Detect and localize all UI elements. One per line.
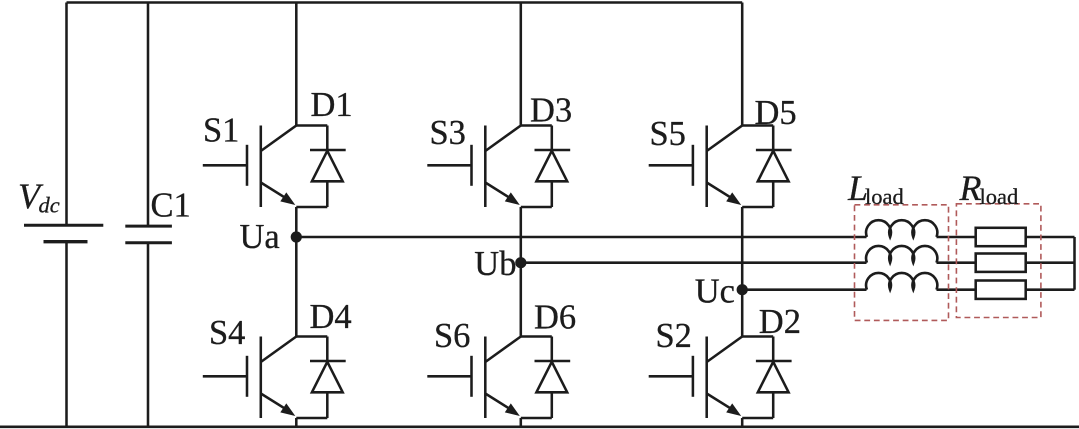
wire: phase a leg, top bus to upper cell <box>295 3 298 126</box>
wire: S4 collector to D4 cathode <box>296 335 327 338</box>
svg-text:load: load <box>865 184 904 209</box>
diode D3 <box>535 126 571 208</box>
node Ua (junction dot) <box>291 231 302 242</box>
wire: S1 emitter to D1 anode <box>296 206 327 209</box>
svg-text:D6: D6 <box>534 298 576 336</box>
capacitor C1 <box>125 226 172 243</box>
svg-text:D2: D2 <box>759 303 801 341</box>
wire: Vdc positive lead <box>65 3 68 226</box>
svg-text:load: load <box>980 184 1019 209</box>
wire: S4 emitter to D4 anode <box>296 417 327 420</box>
wire: phase a leg, upper cell to lower cell (through node Ua) <box>295 207 298 337</box>
L_load dashed outline box <box>855 205 949 321</box>
diode D4 <box>310 337 346 419</box>
wire: S2 emitter to D2 anode <box>742 417 773 420</box>
wire: C1 bottom lead <box>147 243 150 427</box>
svg-text:D5: D5 <box>755 94 797 132</box>
transistor S5 (IGBT) <box>649 126 743 208</box>
svg-text:Uc: Uc <box>695 272 735 310</box>
resistor R3 (phase c) <box>976 281 1026 299</box>
wire: phase b output, node Ub to L2 <box>521 261 867 264</box>
svg-text:Ua: Ua <box>240 218 280 256</box>
wire: R2 to star point <box>1026 261 1075 264</box>
wire: S2 collector to D2 cathode <box>742 335 773 338</box>
wire: star point (neutral) <box>1073 237 1076 290</box>
wire: L2 to R2 <box>937 261 976 264</box>
wire: phase c output, node Uc to L3 <box>742 288 866 291</box>
svg-text:S6: S6 <box>434 317 470 355</box>
wire: top DC bus (+) <box>67 1 743 4</box>
wire: C1 top lead <box>147 3 150 227</box>
wire: S3 collector to D3 cathode <box>521 124 552 127</box>
wire: phase c leg, top bus to upper cell <box>741 3 744 126</box>
wire: S5 emitter to D5 anode <box>742 206 773 209</box>
wire: phase c leg, upper cell to lower cell (through node Uc) <box>741 207 744 337</box>
svg-text:S5: S5 <box>650 115 686 153</box>
wire: L1 to R1 <box>937 236 976 239</box>
diode D6 <box>535 337 571 419</box>
transistor S1 (IGBT) <box>203 126 296 208</box>
transistor S4 (IGBT) <box>203 337 296 419</box>
wire: phase a output, node Ua to L1 <box>296 236 866 239</box>
svg-text:D4: D4 <box>310 298 352 336</box>
inductor L3 (phase c) <box>866 273 937 290</box>
transistor S3 (IGBT) <box>427 126 521 208</box>
transistor S2 (IGBT) <box>649 337 743 419</box>
svg-text:S3: S3 <box>430 114 466 152</box>
svg-text:S1: S1 <box>203 112 239 150</box>
inductor L1 (phase a) <box>866 220 937 237</box>
wire: R3 to star point <box>1026 288 1075 291</box>
svg-text:D3: D3 <box>530 92 572 130</box>
wire: R1 to star point <box>1026 236 1075 239</box>
diode D5 <box>756 126 792 208</box>
wire: S6 emitter to D6 anode <box>521 417 552 420</box>
wire: bottom DC bus (-) <box>0 426 1079 429</box>
svg-text:S2: S2 <box>656 317 692 355</box>
svg-text:R: R <box>959 168 982 208</box>
svg-text:S4: S4 <box>209 314 245 352</box>
wire: S3 emitter to D3 anode <box>521 206 552 209</box>
wire: phase c leg, lower cell to bottom bus <box>741 418 744 427</box>
inductor L2 (phase b) <box>866 246 937 263</box>
wire: Vdc negative lead <box>65 242 68 427</box>
svg-text:D1: D1 <box>311 86 353 124</box>
wire: phase b leg, lower cell to bottom bus <box>520 418 523 427</box>
svg-text:dc: dc <box>39 193 60 218</box>
wire: phase b leg, upper cell to lower cell (through node Ub) <box>520 207 523 337</box>
resistor R1 (phase a) <box>976 228 1026 246</box>
wire: S5 collector to D5 cathode <box>742 124 773 127</box>
svg-text:Ub: Ub <box>474 245 516 283</box>
resistor R2 (phase b) <box>976 254 1026 272</box>
wire: phase a leg, lower cell to bottom bus <box>295 418 298 427</box>
wire: phase b leg, top bus to upper cell <box>520 3 523 126</box>
svg-text:C1: C1 <box>151 187 191 225</box>
wire: S1 collector to D1 cathode <box>296 124 327 127</box>
battery Vdc <box>24 225 103 242</box>
R_load dashed outline box <box>956 204 1041 318</box>
diode D2 <box>756 337 792 419</box>
wire: L3 to R3 <box>937 288 976 291</box>
wire: S6 collector to D6 cathode <box>521 335 552 338</box>
transistor S6 (IGBT) <box>427 337 521 419</box>
node Uc (junction dot) <box>737 284 748 295</box>
diode D1 <box>310 126 346 208</box>
node Ub (junction dot) <box>515 257 526 268</box>
